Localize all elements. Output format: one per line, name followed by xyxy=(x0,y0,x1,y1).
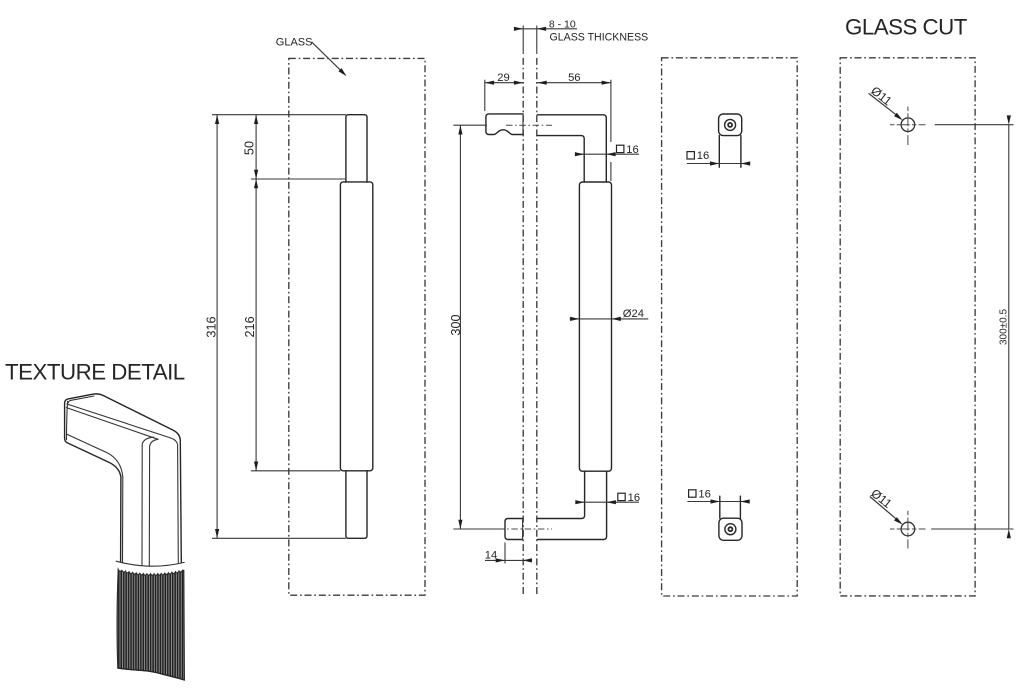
rear view top dimension square16 line xyxy=(687,163,750,165)
dimension dia24 line xyxy=(570,318,649,320)
svg-text:56: 56 xyxy=(568,72,580,84)
front view handle knurled grip body xyxy=(340,182,372,471)
3D handle bar inner left edge xyxy=(122,477,124,562)
dimension square16 top text xyxy=(617,145,624,152)
dimension 29 extension line xyxy=(484,80,486,111)
3D handle bend edge into bar front-left fillet b xyxy=(149,439,158,566)
dimension 56 line xyxy=(537,82,611,84)
rear view bottom dimension square16 line xyxy=(687,501,749,503)
svg-text:16: 16 xyxy=(698,488,710,500)
dimension 316 line xyxy=(216,115,218,539)
glass cut top hole crosshair xyxy=(907,107,909,146)
glass cut bottom hole xyxy=(901,522,915,536)
side view top clamp plate with notch xyxy=(486,114,523,135)
svg-text:16: 16 xyxy=(697,150,709,162)
dimension 8-10 glass thickness line xyxy=(514,28,577,30)
front view extension line at 50/216 boundary xyxy=(251,178,345,180)
dimension 50/216 line xyxy=(255,115,257,471)
glass cut extension lines xyxy=(935,124,1014,126)
3D handle top fillet edge upper xyxy=(67,404,178,564)
glass cut bottom hole crosshair xyxy=(907,511,909,549)
dimension 14 extension line xyxy=(504,543,506,564)
front view extension line bottom xyxy=(212,537,346,539)
dimension square16 bottom text xyxy=(618,493,625,500)
side view glass left face phantom line xyxy=(522,58,524,595)
dimension 300 side line xyxy=(459,125,461,529)
dimension 300 side extension lines xyxy=(453,124,487,126)
rear view top clamp plate xyxy=(719,114,742,136)
side view top arm outer edge xyxy=(537,115,606,182)
rear view glass pane dashed outline xyxy=(662,58,798,596)
rear view top screw xyxy=(725,119,736,130)
glass cut top hole xyxy=(901,118,915,132)
front view extension line at grip bottom xyxy=(251,470,341,472)
front view handle top mount bar xyxy=(346,115,367,183)
dimension 14 line xyxy=(485,559,532,561)
svg-text:216: 216 xyxy=(243,316,257,337)
glass thickness extension lines xyxy=(522,26,524,55)
svg-text:50: 50 xyxy=(242,141,256,155)
rear view bottom stub lines xyxy=(719,496,721,518)
3D handle arm outer silhouette xyxy=(65,394,182,563)
dimension square16 top line xyxy=(577,153,639,155)
front view extension line top xyxy=(212,114,346,116)
svg-text:16: 16 xyxy=(626,144,638,156)
rear view bottom screw xyxy=(725,524,736,535)
rear view top dimension square16 text xyxy=(687,152,694,159)
rear view bottom clamp plate xyxy=(719,518,742,540)
3D knurl collar rim upper arc xyxy=(116,561,184,566)
leader line for GLASS label xyxy=(312,42,342,71)
side view top arm inner edge xyxy=(537,136,584,182)
3D knurl bottom wave edge emphasis xyxy=(118,668,185,680)
side view glass right face phantom line xyxy=(536,58,538,595)
glass cut pane dashed outline xyxy=(840,58,975,596)
dimension square16 bottom line xyxy=(576,501,639,503)
svg-text:300: 300 xyxy=(449,314,463,335)
3D knurled grip section body xyxy=(117,569,184,680)
3D handle top fillet edge lower xyxy=(66,408,158,440)
svg-text:300±0.5: 300±0.5 xyxy=(999,309,1010,346)
side view top centerline xyxy=(506,124,552,126)
rear view bottom dimension square16 text xyxy=(689,490,696,497)
svg-text:8 - 10: 8 - 10 xyxy=(549,19,576,31)
3D handle bend edge into bar front-left fillet a xyxy=(142,437,154,565)
svg-text:316: 316 xyxy=(205,316,219,337)
side view bottom clamp plate xyxy=(505,519,523,540)
3D handle cap top inner edge xyxy=(68,396,94,403)
dimension 29 line xyxy=(485,82,523,84)
side view grip thick section xyxy=(579,182,611,471)
svg-text:GLASS THICKNESS: GLASS THICKNESS xyxy=(550,32,649,44)
dimension 300 +-0.5 line xyxy=(1008,125,1010,529)
3D handle left end cap inner edge xyxy=(67,401,68,439)
front view handle bottom mount bar xyxy=(346,471,367,539)
3D handle bottom fillet edge xyxy=(67,434,123,477)
side view bottom clamp right edge xyxy=(522,519,524,540)
svg-text:Ø24: Ø24 xyxy=(623,308,644,320)
svg-text:14: 14 xyxy=(485,550,497,562)
dimension 56 extension line xyxy=(610,80,612,142)
3D handle arm bottom silhouette and bar left edge xyxy=(65,438,121,562)
side view bottom neck and arm outer edge xyxy=(537,471,606,539)
front view glass pane dashed outline xyxy=(289,58,425,595)
rear view top stub lines xyxy=(718,136,720,168)
svg-text:16: 16 xyxy=(628,492,640,504)
svg-text:TEXTURE DETAIL: TEXTURE DETAIL xyxy=(5,359,185,384)
svg-text:GLASS: GLASS xyxy=(276,37,313,49)
svg-text:GLASS CUT: GLASS CUT xyxy=(845,14,968,39)
side view bottom neck and arm inner edge xyxy=(537,471,584,518)
svg-text:29: 29 xyxy=(497,72,509,84)
side view bottom centerline xyxy=(498,528,552,530)
side view top clamp right edge xyxy=(522,114,524,135)
